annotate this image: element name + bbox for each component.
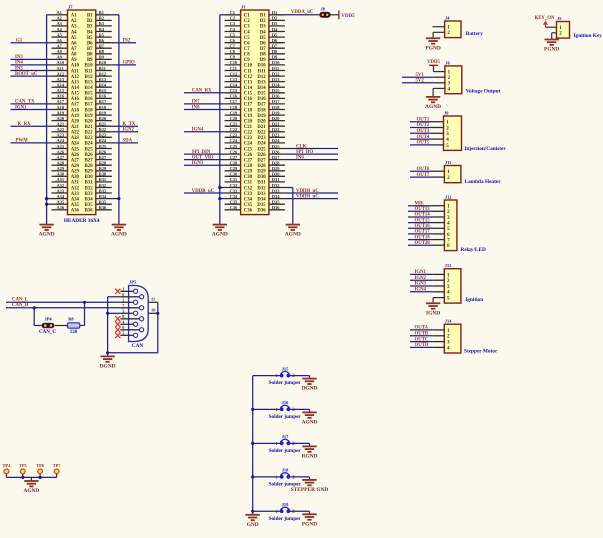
svg-text:Lambda Heater: Lambda Heater [465,179,502,185]
wire net GPIO [112,61,136,66]
svg-text:C18: C18 [244,108,253,113]
svg-text:A10: A10 [71,64,80,69]
svg-text:B22: B22 [85,131,94,136]
svg-text:A35: A35 [57,200,65,205]
svg-text:TP4: TP4 [2,463,11,468]
junction gnd bottom [106,351,109,354]
svg-text:J1: J1 [241,4,245,9]
no-ERC marks on unused DB9 pins [115,289,120,338]
svg-text:D34: D34 [272,194,280,199]
svg-text:J11: J11 [445,160,451,165]
svg-text:D23: D23 [272,133,280,138]
svg-text:B35: B35 [85,203,94,208]
svg-text:B2: B2 [87,19,93,24]
svg-text:A20: A20 [71,119,80,124]
svg-text:D10: D10 [257,64,266,69]
svg-text:C34: C34 [230,194,238,199]
svg-text:A36: A36 [71,209,80,214]
svg-text:C31: C31 [244,181,253,186]
svg-text:8: 8 [122,314,124,319]
svg-text:C33: C33 [244,192,253,197]
svg-text:A28: A28 [71,164,80,169]
svg-text:C35: C35 [230,200,238,205]
svg-text:2: 2 [559,31,562,37]
svg-text:A8: A8 [57,49,63,54]
svg-text:B26: B26 [85,153,94,158]
svg-text:B8: B8 [87,53,93,58]
svg-text:C15: C15 [230,88,238,93]
svg-text:C6: C6 [244,42,250,47]
svg-text:CAN: CAN [132,343,144,349]
svg-text:B33: B33 [99,188,107,193]
wire net OUT3 [410,129,444,134]
svg-text:B6: B6 [99,38,105,43]
svg-text:A29: A29 [71,170,80,175]
svg-text:OUT13: OUT13 [415,207,431,212]
svg-text:D12: D12 [272,71,280,76]
svg-text:OUT3: OUT3 [417,129,430,134]
svg-text:IGN2: IGN2 [123,128,135,133]
svg-text:BOOT_uC: BOOT_uC [15,72,38,77]
ground PGND (battery) [426,38,440,43]
wire net OUTB [410,331,444,336]
wire ignition pin5 to ground [433,298,444,304]
svg-text:D28: D28 [272,161,280,166]
svg-text:D22: D22 [272,127,280,132]
svg-text:B12: B12 [99,71,106,76]
svg-text:A26: A26 [71,153,80,158]
junction jumper bus [251,475,254,478]
svg-text:VDDR_uC: VDDR_uC [192,189,215,194]
svg-text:OUT20: OUT20 [415,241,431,246]
svg-text:A24: A24 [71,142,80,147]
svg-text:A23: A23 [71,136,80,141]
svg-text:A7: A7 [71,47,77,52]
ground AGND (jumper J16) [302,412,316,417]
svg-text:B31: B31 [99,177,106,182]
svg-text:D30: D30 [257,175,266,180]
ground AGND left of J7 [39,225,53,230]
svg-text:D13: D13 [257,80,266,85]
svg-text:C36: C36 [244,209,253,214]
svg-text:D22: D22 [257,131,266,136]
svg-text:A31: A31 [71,181,80,186]
svg-text:AGND: AGND [212,232,228,238]
svg-text:CAN_RX: CAN_RX [192,89,212,94]
svg-text:C32: C32 [244,186,253,191]
wire net OUT20 [408,241,444,246]
svg-text:IN5: IN5 [15,66,23,71]
svg-text:OUT5: OUT5 [417,141,430,146]
svg-text:D3: D3 [260,25,266,30]
svg-text:AGND: AGND [425,104,441,110]
svg-text:IN2: IN2 [123,39,131,44]
svg-text:MIL: MIL [415,201,425,206]
svg-text:C2: C2 [230,16,235,21]
svg-text:A13: A13 [57,77,65,82]
svg-text:2: 2 [447,30,450,36]
svg-text:C17: C17 [244,103,253,108]
svg-text:B17: B17 [99,99,107,104]
wire net OUT15 [408,218,444,223]
svg-text:1: 1 [122,287,124,292]
svg-text:B10: B10 [99,60,107,65]
svg-text:D26: D26 [272,149,280,154]
wire net IGN2 (ignition) [410,276,444,281]
svg-text:C22: C22 [244,131,253,136]
resistor R8 120 [68,317,80,335]
wire net CAN_H [6,303,120,308]
junction jumper bus bottom [251,510,254,513]
junction pin3 gnd [106,312,109,315]
svg-text:A15: A15 [71,92,80,97]
svg-text:A5: A5 [57,32,63,37]
svg-text:6: 6 [122,292,124,297]
svg-text:5: 5 [447,296,450,302]
svg-text:C16: C16 [230,94,238,99]
svg-text:D17: D17 [272,99,280,104]
svg-text:OUT18: OUT18 [415,235,431,240]
svg-text:Solder jumper: Solder jumper [269,380,302,386]
svg-text:A22: A22 [57,127,65,132]
svg-text:9: 9 [122,325,124,330]
svg-text:C24: C24 [230,138,238,143]
svg-text:A19: A19 [57,110,65,115]
svg-text:C21: C21 [244,125,253,130]
svg-text:B5: B5 [99,32,105,37]
svg-text:CLK: CLK [296,144,307,149]
svg-text:B28: B28 [99,161,107,166]
test point TP6 [36,463,45,477]
svg-text:A2: A2 [57,16,62,21]
svg-text:A30: A30 [57,172,65,177]
svg-text:A36: A36 [57,205,65,210]
svg-text:A27: A27 [71,158,80,163]
wire DB9 pins 6,3 to ground [108,297,121,353]
svg-text:IGN4: IGN4 [415,288,427,293]
svg-text:C22: C22 [230,127,238,132]
svg-text:OUT4: OUT4 [417,135,430,140]
svg-text:B14: B14 [99,83,107,88]
svg-text:4: 4 [448,86,451,92]
svg-text:C19: C19 [230,110,238,115]
svg-text:5: 5 [446,143,449,149]
svg-text:D15: D15 [272,88,280,93]
svg-text:B12: B12 [85,75,94,80]
svg-text:B26: B26 [99,149,107,154]
svg-text:Solder jumper: Solder jumper [269,414,302,420]
svg-text:D31: D31 [257,181,266,186]
svg-text:D36: D36 [257,209,266,214]
svg-text:8: 8 [447,243,450,249]
wire net OUTD [410,343,444,348]
svg-text:C18: C18 [230,105,238,110]
wire net CAN_RX [184,89,225,94]
svg-text:B1: B1 [87,14,93,19]
svg-text:AGND: AGND [39,232,55,238]
svg-text:D29: D29 [257,170,266,175]
svg-text:D3: D3 [272,21,278,26]
power port VDD5 (top right) [339,10,355,19]
wire net MIL [408,201,444,206]
svg-text:A16: A16 [57,94,65,99]
svg-text:A35: A35 [71,203,80,208]
svg-text:B35: B35 [99,200,107,205]
svg-text:GPIO: GPIO [123,61,136,66]
svg-text:A6: A6 [57,38,63,43]
svg-text:B10: B10 [85,64,94,69]
svg-text:KEY_ON: KEY_ON [535,16,556,21]
svg-text:5V1: 5V1 [416,73,425,78]
svg-text:D30: D30 [272,172,280,177]
power port KEY_ON [535,16,556,27]
svg-text:B4: B4 [99,27,105,32]
wire net IGN4 (ignition) [410,288,444,293]
svg-text:C21: C21 [230,122,238,127]
svg-text:OUT6: OUT6 [417,167,430,172]
svg-text:D26: D26 [257,153,266,158]
svg-text:C20: C20 [230,116,238,121]
svg-text:C5: C5 [244,36,250,41]
svg-text:C12: C12 [230,71,238,76]
connector J13 Ignition [444,263,483,303]
svg-text:B36: B36 [99,205,107,210]
svg-text:D20: D20 [257,119,266,124]
svg-text:B18: B18 [85,108,94,113]
svg-text:A9: A9 [57,55,63,60]
svg-text:C33: C33 [230,188,238,193]
svg-text:D33: D33 [257,192,266,197]
svg-text:A13: A13 [71,80,80,85]
wire vout pin1 [434,71,445,73]
svg-text:A3: A3 [57,21,63,26]
svg-text:B32: B32 [85,186,94,191]
svg-text:B13: B13 [85,80,94,85]
svg-text:C36: C36 [230,205,238,210]
svg-text:A2: A2 [71,19,77,24]
svg-text:D27: D27 [257,158,266,163]
wire termination branch [34,302,84,325]
wire net CLK [285,144,338,149]
connector J4 Battery [445,15,484,37]
svg-text:C3: C3 [230,21,236,26]
junction A34 [45,197,48,200]
svg-text:C12: C12 [244,75,253,80]
svg-text:Relay/LED: Relay/LED [461,247,486,253]
wire net IN5 [11,66,52,71]
svg-text:AGND: AGND [23,488,39,494]
junction shield [156,312,159,315]
svg-text:A4: A4 [71,30,77,35]
svg-text:D1: D1 [260,14,266,19]
svg-text:C1: C1 [244,14,250,19]
svg-text:B6: B6 [87,42,93,47]
svg-text:C27: C27 [244,158,253,163]
svg-text:D10: D10 [272,60,280,65]
junction TP6 [39,476,42,479]
ground PGND (ignition key) [545,40,559,45]
svg-text:C24: C24 [244,142,253,147]
svg-text:D14: D14 [257,86,266,91]
svg-text:D11: D11 [258,69,267,74]
svg-text:CAN_C: CAN_C [39,330,56,335]
svg-text:PGND: PGND [302,521,317,527]
svg-text:A30: A30 [71,175,80,180]
svg-text:IGN1: IGN1 [15,105,27,110]
svg-text:D32: D32 [272,183,280,188]
svg-text:IGN4: IGN4 [192,128,204,133]
wire key pin2 to ground [552,33,557,40]
svg-text:D32: D32 [257,186,266,191]
svg-text:D16: D16 [272,94,280,99]
svg-text:HEADER 36X4: HEADER 36X4 [64,218,100,224]
wire net SPI_DIN [184,150,225,155]
svg-text:TP5: TP5 [19,463,28,468]
svg-text:D21: D21 [257,125,266,130]
svg-text:A31: A31 [57,177,65,182]
ground DGND (CAN) [107,353,109,357]
svg-text:D4: D4 [260,30,266,35]
ground DGND (jumper J15) [302,379,316,384]
svg-text:C3: C3 [244,25,250,30]
svg-text:4: 4 [447,345,450,351]
svg-text:RGND: RGND [302,453,318,459]
svg-text:D7: D7 [260,47,266,52]
svg-text:C10: C10 [230,60,238,65]
ground AGND (voltage output) [426,97,440,102]
svg-text:C10: C10 [244,64,253,69]
svg-text:B25: B25 [99,144,107,149]
wire net OUT5 [410,141,444,146]
svg-text:A11: A11 [57,66,64,71]
svg-text:C31: C31 [230,177,238,182]
svg-text:C19: C19 [244,114,253,119]
svg-text:A32: A32 [57,183,65,188]
ground PGND (jumper J19) [302,514,316,519]
solder jumper J15 [253,366,310,386]
svg-text:DGND: DGND [302,386,318,392]
svg-text:A34: A34 [57,194,65,199]
svg-text:J17: J17 [282,434,289,439]
wire net K_TX [112,122,138,127]
svg-text:D35: D35 [272,200,280,205]
connector J1 HEADER 36X4 [225,4,285,214]
svg-text:D29: D29 [272,166,280,171]
svg-text:B21: B21 [85,125,94,130]
svg-text:B23: B23 [85,136,94,141]
wire net OUT_VB1 [184,155,225,160]
svg-text:IGN3: IGN3 [415,282,427,287]
svg-text:OUTA: OUTA [415,326,429,331]
svg-text:VDDH_uC: VDDH_uC [296,189,319,194]
svg-text:IN8: IN8 [192,105,200,110]
svg-text:B7: B7 [99,44,105,49]
svg-text:D18: D18 [257,108,266,113]
svg-text:AGND: AGND [302,419,318,425]
svg-text:OUTC: OUTC [415,337,429,342]
wire key pin1 [546,26,557,28]
svg-text:120: 120 [70,330,78,335]
svg-text:D36: D36 [272,205,280,210]
svg-text:A18: A18 [71,108,80,113]
wire net CAN_L [6,298,120,303]
connector J9 Injection/Canister [444,110,507,151]
junction TP5 [21,476,24,479]
connector J7 HEADER 36X4 [52,4,112,214]
svg-text:B28: B28 [85,164,94,169]
svg-text:K_TX: K_TX [123,122,136,127]
wire net OUT14 [408,213,444,218]
svg-text:A5: A5 [71,36,77,41]
wire net OUT6 [410,167,444,172]
wire A-side ground bus [47,15,52,224]
svg-text:11: 11 [151,297,155,302]
svg-text:B29: B29 [85,170,94,175]
svg-text:A32: A32 [71,186,80,191]
wire net CAN_TX [11,100,52,105]
svg-text:AGND: AGND [111,232,127,238]
wire net SDA [112,139,138,144]
svg-text:A27: A27 [57,155,65,160]
svg-text:C29: C29 [230,166,238,171]
ground AGND left of J1 [213,225,227,230]
svg-text:A25: A25 [71,147,80,152]
svg-text:A29: A29 [57,166,65,171]
wire vout pin4 to ground [433,88,445,97]
svg-text:B16: B16 [99,94,107,99]
junction C34 [218,197,221,200]
svg-text:A1: A1 [57,10,62,15]
svg-text:C27: C27 [230,155,238,160]
svg-text:OUT1: OUT1 [417,117,430,122]
svg-text:IN4: IN4 [15,61,23,66]
svg-text:A21: A21 [71,125,80,130]
wire DB9 shield pin 11 [148,297,158,303]
wire net SPI_DO [285,150,338,155]
wire net OUT16 [408,224,444,229]
svg-text:Ignition: Ignition [465,297,483,303]
svg-text:D19: D19 [257,114,266,119]
svg-text:IGN2: IGN2 [415,276,427,281]
wire B-side ground bus [112,15,119,224]
svg-text:A33: A33 [57,188,65,193]
svg-text:JP4: JP4 [45,317,53,322]
svg-text:5: 5 [122,331,124,336]
svg-text:A15: A15 [57,88,65,93]
svg-text:IGN3: IGN3 [192,161,204,166]
svg-text:A12: A12 [57,71,65,76]
wire net OUT17 [408,230,444,235]
wire net IGN3 (ignition) [410,282,444,287]
svg-text:J12: J12 [445,194,452,199]
svg-text:Battery: Battery [466,31,483,37]
svg-text:B20: B20 [99,116,107,121]
svg-text:A7: A7 [57,44,63,49]
svg-text:A17: A17 [71,103,80,108]
connector J6 Voltage Output [445,60,501,94]
wire J8 to VDD5 [330,14,339,16]
svg-text:B33: B33 [85,192,94,197]
svg-text:SDA: SDA [123,139,133,144]
svg-text:C28: C28 [244,164,253,169]
svg-text:C15: C15 [244,92,253,97]
svg-text:C4: C4 [244,30,250,35]
wire battery pin1 stub [433,26,445,28]
svg-text:D24: D24 [272,138,280,143]
svg-text:B15: B15 [99,88,107,93]
svg-text:D33: D33 [272,188,280,193]
wire net OUT7 [410,173,444,178]
